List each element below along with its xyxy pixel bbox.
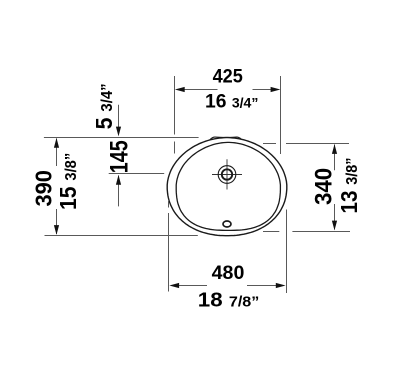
340 down arrowhead: [332, 221, 337, 231]
top 425: dim line: [184, 89, 218, 91]
bottom 480: left extension line: [168, 201, 170, 208]
basin top edge bump: [210, 137, 241, 140]
svg-text:145: 145: [105, 140, 133, 173]
basin inner bowl: [176, 142, 280, 230]
basin outer rim: [167, 138, 287, 236]
390 up arrowhead: [54, 138, 59, 148]
svg-text:340: 340: [310, 168, 337, 205]
arrowheads: [54, 87, 337, 288]
left 5 3/4 stem: [118, 105, 120, 128]
left 145: drain-center extension line: [109, 173, 165, 175]
5 3/4 down arrow: [116, 127, 121, 137]
dimension/extension lines: [44, 76, 350, 293]
svg-text:16 3/4”: 16 3/4”: [205, 91, 258, 113]
left 390: top extension line: [44, 137, 199, 139]
top 425: right extension line: [280, 76, 282, 154]
340 up arrowhead: [332, 144, 337, 154]
drain outer circle: [218, 166, 236, 184]
bottom 480: right extension line: [286, 210, 288, 294]
drain inner circle: [222, 169, 232, 179]
overflow hole: [223, 221, 231, 227]
left 145 stem: [118, 176, 120, 207]
480 right arrowhead: [276, 283, 286, 288]
390 down arrowhead: [54, 225, 59, 235]
svg-text:480: 480: [212, 262, 245, 284]
drain crosshair: [212, 159, 242, 189]
right 340: bottom extension line: [263, 231, 279, 233]
425 right arrowhead: [271, 87, 281, 92]
right 340: dim line: [334, 145, 336, 171]
145 up arrow: [116, 175, 121, 185]
svg-text:425: 425: [213, 65, 243, 87]
480 left arrowhead: [169, 283, 179, 288]
svg-text:390: 390: [31, 170, 57, 206]
left 390: dim line: [56, 139, 58, 167]
top 425: left extension line: [174, 76, 176, 135]
425 left arrowhead: [175, 87, 185, 92]
right 340: top extension line: [263, 143, 276, 145]
left 390: bottom extension line: [45, 235, 198, 237]
bottom 480: dim line: [179, 285, 208, 287]
